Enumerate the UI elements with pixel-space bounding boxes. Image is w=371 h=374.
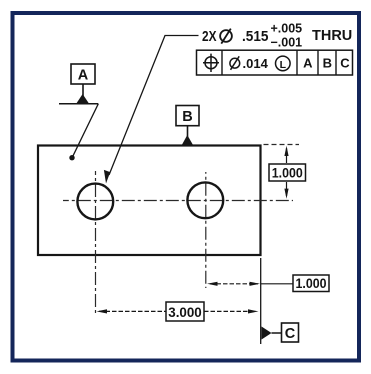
dashed extension line top right xyxy=(264,144,300,146)
FCF cell dividers xyxy=(222,50,336,75)
svg-text:−.001: −.001 xyxy=(271,36,303,50)
svg-text:+.005: +.005 xyxy=(271,22,303,36)
feature control frame outer box xyxy=(197,50,353,75)
datum B filled triangle xyxy=(182,135,193,145)
svg-text:A: A xyxy=(78,68,89,84)
vertical centerline right hole xyxy=(205,172,207,288)
svg-text:2X: 2X xyxy=(202,28,217,45)
svg-text:THRU: THRU xyxy=(312,28,352,44)
hole H2 (right) xyxy=(187,182,223,218)
hole H1 (left) xyxy=(77,184,113,220)
svg-text:A: A xyxy=(303,56,313,71)
svg-text:.515: .515 xyxy=(242,28,269,45)
lower dimension 1.000 leader to box xyxy=(261,283,293,285)
vertical dimension 1.000 text box xyxy=(269,164,306,181)
datum A stem xyxy=(82,84,84,96)
svg-text:1.000: 1.000 xyxy=(296,276,327,291)
datum C filled triangle xyxy=(262,327,272,340)
svg-text:B: B xyxy=(182,109,192,125)
vertical centerline left hole xyxy=(95,171,97,315)
svg-text:L: L xyxy=(280,59,287,71)
svg-text:C: C xyxy=(285,326,296,342)
LMC modifier circle-L xyxy=(276,56,291,71)
svg-text:3.000: 3.000 xyxy=(168,305,202,320)
dimension 3.000 line left segment xyxy=(99,310,166,312)
datum A filled triangle xyxy=(77,94,89,103)
svg-text:B: B xyxy=(323,56,332,71)
note leader arrowhead xyxy=(104,170,110,184)
vertical dimension 1.000 up arrow xyxy=(286,148,288,163)
lower dimension 1.000 text box xyxy=(293,275,329,292)
dimension 3.000 text box xyxy=(166,302,204,321)
datum A ledge line xyxy=(59,103,98,105)
dimension 3.000 line right segment xyxy=(204,310,256,312)
datum C leader xyxy=(272,332,282,334)
vertical dimension 1.000 down arrow xyxy=(286,182,288,196)
note diameter symbol xyxy=(220,30,232,42)
note leader line xyxy=(109,36,199,176)
datum C frame box xyxy=(282,323,299,342)
FCF diameter symbol xyxy=(230,56,240,70)
datum A frame box xyxy=(71,64,95,84)
part outline rectangle xyxy=(38,146,261,256)
datum A leader to surface xyxy=(72,104,98,158)
right edge extension line down xyxy=(260,258,262,344)
datum B frame box xyxy=(176,106,199,126)
horizontal centerline through holes xyxy=(63,200,293,202)
svg-text:C: C xyxy=(340,56,350,71)
position symbol xyxy=(203,54,219,72)
svg-text:1.000: 1.000 xyxy=(272,165,303,180)
lower dimension 1.000 line with arrows xyxy=(210,283,258,285)
datum B stem xyxy=(187,126,189,137)
datum A surface dot xyxy=(69,155,74,160)
svg-text:.014: .014 xyxy=(243,56,269,71)
